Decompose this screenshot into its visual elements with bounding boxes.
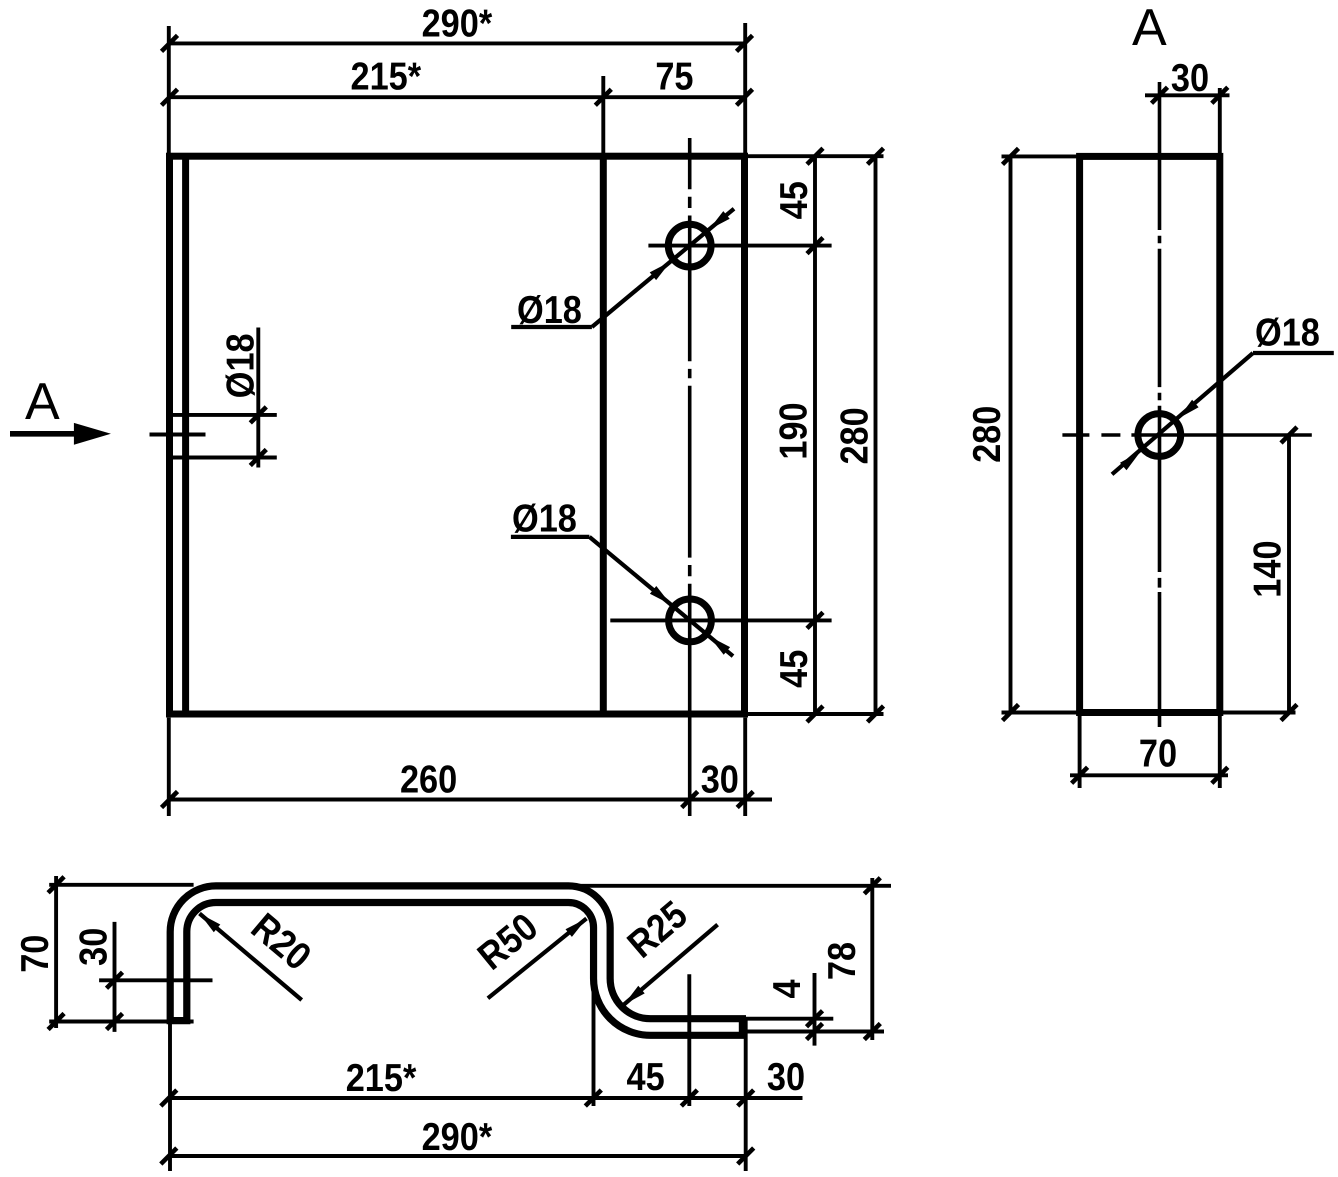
svg-text:30: 30: [767, 1056, 805, 1099]
svg-text:140: 140: [1247, 540, 1290, 597]
svg-text:215*: 215*: [350, 56, 421, 99]
svg-text:215*: 215*: [346, 1057, 417, 1100]
svg-text:280: 280: [833, 407, 876, 464]
svg-text:75: 75: [655, 56, 693, 99]
svg-text:190: 190: [773, 402, 816, 459]
svg-text:Ø18: Ø18: [1255, 312, 1320, 355]
svg-text:Ø18: Ø18: [512, 498, 577, 541]
svg-text:290*: 290*: [422, 3, 493, 46]
svg-text:4: 4: [766, 979, 809, 998]
svg-text:45: 45: [773, 650, 816, 688]
svg-text:280: 280: [966, 406, 1009, 463]
svg-text:30: 30: [1171, 57, 1209, 100]
svg-text:30: 30: [73, 928, 116, 966]
svg-text:290*: 290*: [422, 1116, 493, 1159]
svg-text:A: A: [25, 373, 60, 431]
svg-text:Ø18: Ø18: [517, 289, 582, 332]
svg-text:70: 70: [1139, 733, 1177, 776]
svg-text:30: 30: [701, 759, 739, 802]
svg-text:A: A: [1132, 0, 1167, 57]
svg-text:45: 45: [627, 1056, 665, 1099]
svg-text:Ø18: Ø18: [220, 333, 263, 398]
svg-text:70: 70: [14, 935, 57, 973]
svg-text:78: 78: [821, 942, 864, 980]
svg-text:45: 45: [773, 181, 816, 219]
svg-text:260: 260: [400, 759, 457, 802]
